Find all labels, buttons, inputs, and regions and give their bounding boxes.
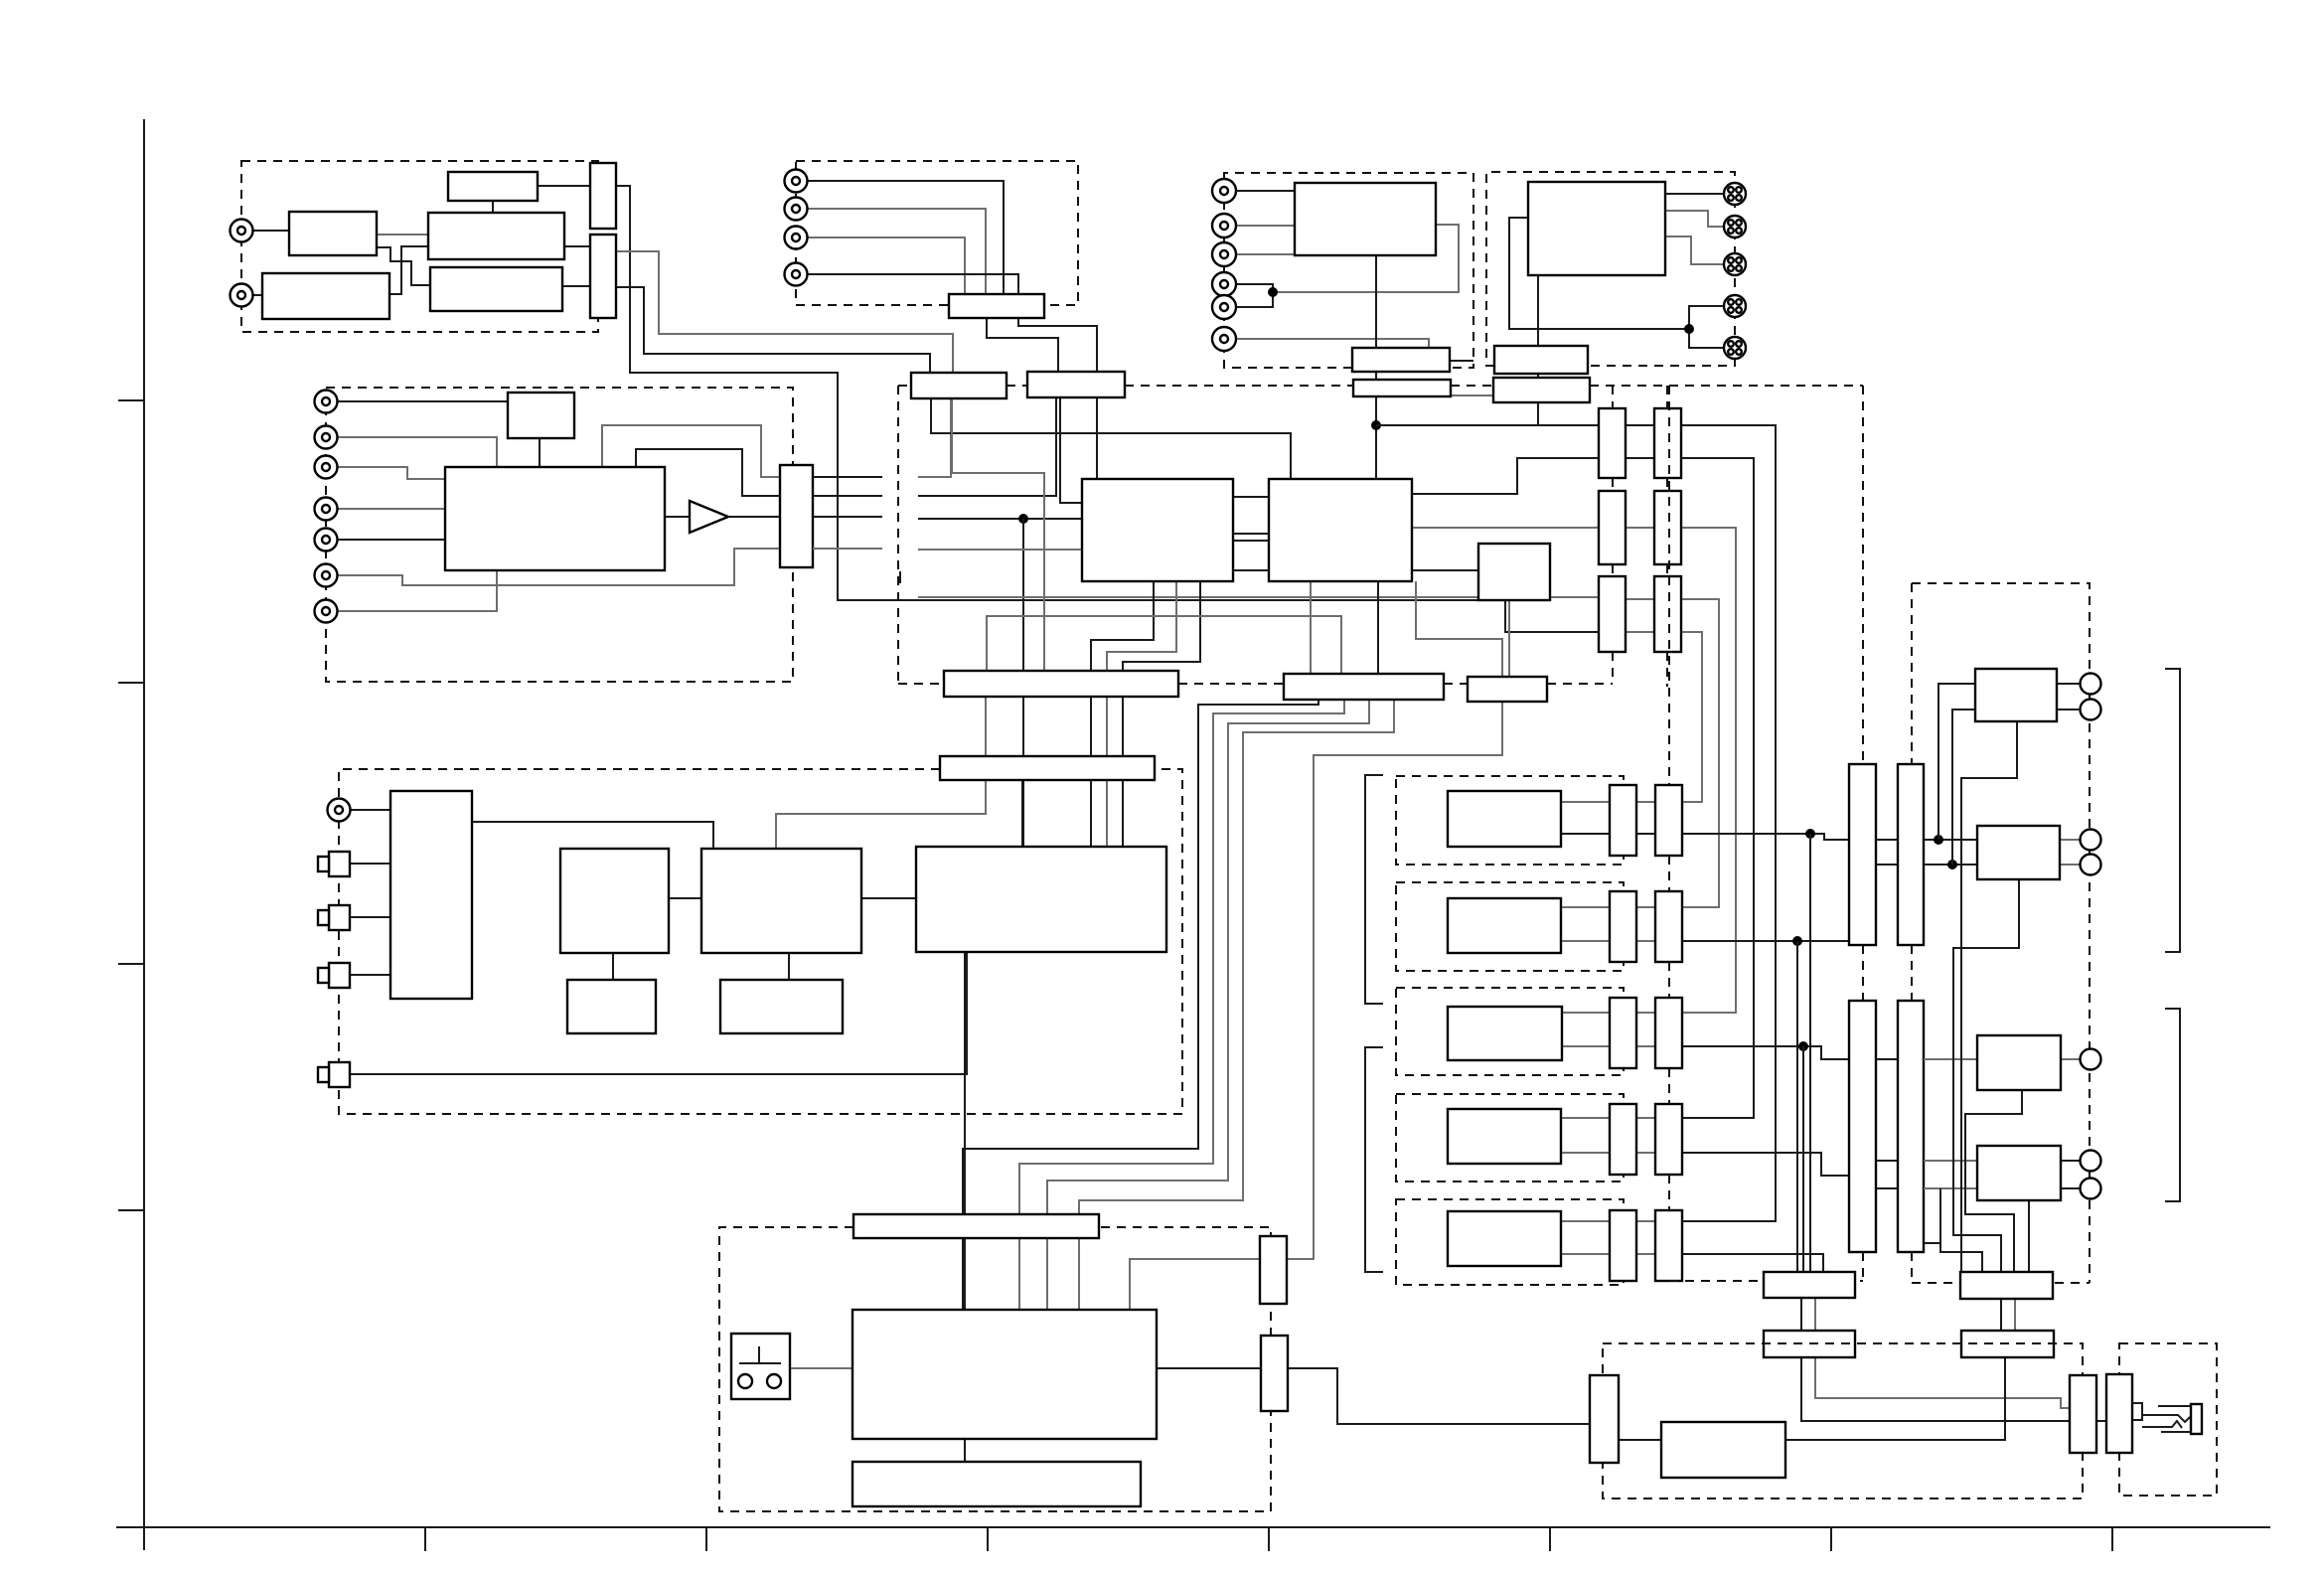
wire block TR2 to quad Q2 bbox=[1665, 211, 1724, 227]
jack R6c bbox=[1212, 327, 1236, 351]
jack R1c bbox=[1212, 179, 1236, 203]
dashed group box top-right 2 bbox=[1486, 172, 1735, 366]
wire bundle wD BL2 to block G bbox=[1079, 700, 1394, 1310]
dashed group box bottom-left bbox=[339, 769, 1182, 1114]
left bracket upper bbox=[1365, 775, 1383, 1004]
wire B4 down to bar TR1 a bbox=[2028, 1200, 2030, 1272]
wire box C to V_tl2 bbox=[564, 245, 590, 247]
dashed middle box left edge bbox=[897, 386, 899, 684]
wire square S1c to tall block bbox=[350, 863, 390, 865]
bar TM2 bbox=[1027, 372, 1125, 397]
wire square S4c long line to block F bottom bbox=[350, 952, 967, 1074]
terminal T4b bbox=[2081, 1179, 2101, 1199]
connector C1a bbox=[1599, 408, 1626, 478]
row5 connector Pb bbox=[1655, 1210, 1682, 1281]
row5 dashed box bbox=[1396, 1199, 1624, 1285]
wire block TR2 left loop to node C bbox=[1509, 218, 1689, 329]
wire B1 to terminal T1a bbox=[2057, 683, 2080, 685]
wire jack R4c down to node bbox=[1236, 284, 1273, 292]
tall block TB bbox=[390, 791, 472, 999]
dashed group box top-left bbox=[241, 161, 598, 332]
row1 wires bbox=[1561, 801, 1610, 803]
wire V2 to jack bbox=[2132, 1419, 2142, 1421]
wire V0 to block W bbox=[1619, 1439, 1661, 1441]
dashed group box bottom-middle bbox=[719, 1227, 1271, 1511]
wire bar TL down to block F bbox=[1021, 780, 1023, 847]
wire V_m2 long line to x1248 up bbox=[918, 397, 1056, 496]
square connector S2c bbox=[329, 905, 350, 930]
bar A2 bbox=[1353, 380, 1451, 396]
wire B2 to terminal T2b bbox=[2060, 864, 2080, 866]
bar A1 bbox=[1352, 348, 1450, 372]
bar GB bbox=[852, 1462, 1141, 1506]
bar TR2 bbox=[1961, 1331, 2054, 1357]
amp block B2 bbox=[1977, 826, 2060, 879]
wire B_mid link B_right bbox=[669, 897, 701, 899]
box E bbox=[430, 267, 562, 311]
quad Q5 bbox=[1724, 337, 1746, 359]
connector R1 bbox=[1898, 764, 1924, 945]
wire bar TL down to B_right loop bbox=[776, 780, 986, 849]
row3 block bbox=[1448, 1007, 1562, 1060]
ruler tick x1843 bbox=[1830, 1527, 1832, 1551]
wire jack L5c to block LB bbox=[338, 539, 445, 541]
wire M2 bottom gray to bar BL2 bbox=[1310, 581, 1312, 674]
dashed tall box bottom edge bbox=[1669, 1280, 1863, 1282]
wire C3b down to row1 top bbox=[1681, 632, 1702, 802]
wire node C to quad Q4 bbox=[1689, 306, 1724, 329]
wire R1 to node H to B2 bbox=[1924, 839, 1977, 841]
row3 connector Pa bbox=[1610, 998, 1636, 1068]
row2 dashed box bbox=[1396, 882, 1624, 971]
right bracket upper bbox=[2165, 669, 2180, 952]
wire node I up to B1 bbox=[1952, 709, 1975, 865]
small box SB bbox=[508, 393, 574, 438]
wire block M1 link3 M2 bbox=[1233, 540, 1269, 542]
dashed middle box right edge chain x1623 bbox=[1612, 386, 1614, 408]
box C bbox=[428, 213, 564, 259]
node B junction bbox=[1371, 420, 1381, 430]
axis tick y388 bbox=[118, 399, 144, 401]
dashed group box bottom-right bbox=[1603, 1343, 2083, 1498]
row1 dashed box bbox=[1396, 776, 1624, 865]
wire block M1 link2 M2 bbox=[1233, 533, 1269, 535]
wire node G2 down to bar BB1 bbox=[1802, 1046, 1804, 1272]
connector V2 bbox=[2106, 1374, 2132, 1453]
connector C3a bbox=[1599, 576, 1626, 652]
amp block B4 bbox=[1977, 1146, 2061, 1200]
wire block TR1 down to bar A1 bbox=[1375, 255, 1377, 348]
wire bundle wB BL2 to block G bbox=[1019, 700, 1344, 1310]
row5 out bottom to bar BB1 bbox=[1682, 1254, 1823, 1272]
bar BB2 bbox=[1764, 1331, 1855, 1357]
wire TR1-TR2 link a bbox=[2000, 1299, 2002, 1331]
connector V_tl2 bbox=[590, 235, 616, 318]
ruler tick x428 bbox=[424, 1527, 426, 1551]
terminal T3a bbox=[2081, 1049, 2101, 1070]
wire M2 right to C2a 531 bbox=[1412, 527, 1599, 529]
wire V_m2 up to bar TM1 bottom bbox=[918, 398, 951, 477]
wire B1 down to bar TR1 bbox=[1961, 721, 2017, 1272]
connector C3b bbox=[1654, 576, 1681, 652]
connector V_tl1 bbox=[590, 163, 616, 229]
jack T1 bbox=[231, 220, 253, 242]
jack L1c bbox=[315, 391, 338, 413]
wire M1 bottom v3 step to block F bbox=[1123, 581, 1200, 847]
node D junction bbox=[1018, 514, 1028, 524]
wire L2-R2 link 1168 bbox=[1876, 1160, 1898, 1162]
row4 out bottom to L2 bbox=[1682, 1153, 1849, 1176]
wire small box SB down to block LB bbox=[539, 438, 541, 467]
wire jack L6c under block to V_lm bbox=[338, 549, 780, 585]
wire bar TM down long to block M1 top bbox=[1018, 318, 1097, 479]
wire R2 tap via B4 input down to bar TR1 bbox=[1924, 1188, 1940, 1243]
wire jack L7c up to block LB bottom bbox=[338, 570, 497, 611]
wire box A to box C bbox=[377, 234, 428, 236]
row4 connector Pa bbox=[1610, 1104, 1636, 1175]
connector L2 bbox=[1849, 1001, 1876, 1252]
wire block F down to bar BM and block G bbox=[964, 952, 966, 1310]
bar BL2 bbox=[1284, 674, 1444, 700]
wire BL1 to bar TL chain x992 bbox=[985, 697, 987, 756]
quad Q4 bbox=[1724, 295, 1746, 317]
bar TM1 bbox=[911, 373, 1007, 398]
wire jack R2c to block TR1 bbox=[1236, 225, 1295, 227]
block B_mid bbox=[560, 849, 669, 953]
wire V_m3 long gray to C3a bbox=[918, 596, 1599, 598]
row3 out bottom with node G2 to L2 bbox=[1682, 1046, 1849, 1059]
dashed speaker box top and right bbox=[1912, 583, 2090, 1283]
wire amp triangle to V_lm bbox=[727, 516, 780, 518]
wire box A step to box E bbox=[377, 247, 430, 285]
amp block B3 bbox=[1977, 1035, 2061, 1090]
dashed speaker box left edge x1924 bbox=[1911, 583, 1913, 764]
headphone jack symbol bbox=[2133, 1403, 2202, 1434]
wire C1a-C1b link 428 bbox=[1626, 424, 1654, 426]
wire node D down to bar BL1 bbox=[1022, 519, 1024, 847]
quad Q1 bbox=[1724, 183, 1746, 205]
wire BB1-BB2 link black bbox=[1800, 1298, 1802, 1331]
wire BB2 down to V1 gray bbox=[1815, 1357, 2070, 1408]
wire jack R1c to block TR1 bbox=[1236, 190, 1295, 192]
dashed group box left-middle bbox=[326, 388, 793, 682]
jack R3c bbox=[1212, 242, 1236, 266]
wire L1-R1 link 845 bbox=[1876, 839, 1898, 841]
jack M4c bbox=[785, 263, 808, 286]
wire V_lm out3 to V_m2 bbox=[813, 516, 882, 518]
row5 wires bbox=[1561, 1220, 1610, 1222]
block G bbox=[852, 1310, 1157, 1439]
wire jack L2c to block LB top bbox=[338, 437, 497, 467]
wire jack M3c to bar TM bbox=[808, 237, 965, 294]
node H junction bbox=[1934, 835, 1943, 845]
wire C2b down to row3 top bbox=[1681, 528, 1736, 1013]
wire bundle wA BL2 to block G bbox=[963, 700, 1318, 1310]
wire node E down to bar BB1 bbox=[1809, 834, 1811, 1272]
row2 out bottom with node F to L1 bbox=[1682, 940, 1849, 942]
quad Q2 bbox=[1724, 216, 1746, 237]
terminal T1b bbox=[2081, 700, 2101, 720]
wire R1 to node I to B2 bbox=[1924, 864, 1977, 866]
wire square S3c to tall block bbox=[350, 974, 390, 976]
dashed group box top-middle bbox=[796, 161, 1078, 305]
wire jack M4c to bar TM bbox=[808, 274, 1018, 294]
terminal T2a bbox=[2081, 830, 2101, 851]
wire M1 bottom v2 step to block F bbox=[1107, 581, 1176, 847]
jack L2c bbox=[315, 426, 338, 449]
wire B2 down to bar TR1 bbox=[1953, 879, 2019, 1272]
bar TM bbox=[949, 294, 1044, 318]
wire block TR2 to quad Q1 bbox=[1665, 193, 1724, 195]
wire TR1-TR2 link b bbox=[2014, 1299, 2016, 1331]
right bracket lower bbox=[2165, 1009, 2180, 1201]
terminal T2b bbox=[2081, 855, 2101, 875]
dashed middle box bottom edge segments bbox=[898, 683, 944, 685]
bar TR1 bbox=[1960, 1272, 2053, 1299]
jack L7c bbox=[315, 600, 338, 623]
wire R2 to B4 in2 bbox=[1924, 1187, 1977, 1189]
wire BB1-BB2 link gray bbox=[1814, 1298, 1816, 1331]
wire B4 to terminal T4b bbox=[2061, 1187, 2080, 1189]
ruler tick x994 bbox=[987, 1527, 989, 1551]
ruler tick x711 bbox=[705, 1527, 707, 1551]
wire jack R3c to block TR1 bbox=[1236, 253, 1295, 255]
row3 dashed box bbox=[1396, 988, 1624, 1075]
amp triangle bbox=[690, 501, 728, 533]
wire C3a-C3b link 627 bbox=[1626, 598, 1654, 600]
bar BB1 bbox=[1764, 1272, 1855, 1298]
wire box D step to box C bbox=[389, 246, 428, 294]
wire V_lm out2 to V_m2 bbox=[813, 495, 882, 497]
wire jack R5c up to node bbox=[1236, 292, 1273, 307]
row4 block bbox=[1448, 1109, 1561, 1164]
row3 connector Pb bbox=[1655, 998, 1682, 1068]
wire jack T1 to box A bbox=[252, 230, 289, 232]
wire V_tl1 to long run down-right toward C3a bbox=[616, 186, 1599, 632]
row1 block bbox=[1448, 791, 1561, 847]
wire R2 to B3 bbox=[1924, 1058, 1977, 1060]
row1 out bottom with node E to L1 bbox=[1682, 834, 1849, 840]
row5 block bbox=[1448, 1211, 1561, 1266]
wire block G down to bar GB bbox=[964, 1439, 966, 1462]
row3 wires bbox=[1562, 1012, 1610, 1014]
wire B_right link F bbox=[861, 897, 916, 899]
wire bundle wC BL2 to block G bbox=[1047, 700, 1369, 1310]
wire BL1 to bar TL chain x1030 bbox=[1022, 697, 1024, 756]
jack L3c bbox=[315, 456, 338, 479]
connector R_b bbox=[1261, 1336, 1288, 1411]
wire V_tl2 lower output to bar TM1 bbox=[616, 287, 930, 375]
bottom ruler line bbox=[116, 1526, 2270, 1528]
box S2 bbox=[720, 980, 843, 1033]
jack BLc bbox=[328, 799, 351, 822]
wire V_m2 out4 to block M1 bbox=[918, 549, 1082, 551]
wire box B to V_tl1 bbox=[538, 185, 590, 187]
wire M2 bottom step to bar3 bbox=[1130, 581, 1502, 1310]
wire jack L3c step to block LB bbox=[338, 467, 445, 479]
block TR1 bbox=[1295, 183, 1436, 255]
node C junction bbox=[1684, 324, 1694, 334]
wire B_right down to S2 bbox=[788, 953, 790, 980]
axis tick y1244 bbox=[118, 1209, 144, 1211]
jack M1c bbox=[785, 170, 808, 193]
wire node C to quad Q5 bbox=[1689, 329, 1724, 348]
ruler tick x1277 bbox=[1268, 1527, 1270, 1551]
wire V_lm out1 to V_m2 bbox=[813, 476, 882, 478]
wire block LB top loop 2 to V_lm bbox=[636, 449, 780, 496]
wire box E to V_tl2 bbox=[562, 285, 590, 287]
bar TL bbox=[940, 756, 1155, 780]
box B bbox=[448, 172, 538, 201]
dashed headphone box bbox=[2119, 1343, 2217, 1496]
row4 dashed box bbox=[1396, 1094, 1624, 1182]
square connector S4c bbox=[329, 1062, 350, 1087]
box S1 bbox=[567, 980, 656, 1033]
ruler tick x1560 bbox=[1549, 1527, 1551, 1551]
wire C1b down to row5 top bbox=[1681, 425, 1776, 1221]
connector V1 bbox=[2070, 1375, 2096, 1453]
wire node H up to B1 bbox=[1938, 684, 1975, 840]
block TR2 bbox=[1528, 182, 1665, 275]
jack M2c bbox=[785, 198, 808, 221]
connector V_lm bbox=[780, 465, 813, 567]
node G2 junction bbox=[1798, 1041, 1808, 1051]
bar BL1 bbox=[944, 671, 1178, 697]
connector L1 bbox=[1849, 764, 1876, 945]
box SM bbox=[1478, 544, 1550, 600]
wire jack T2 to box D bbox=[252, 294, 262, 296]
row2 connector Pa bbox=[1610, 891, 1636, 962]
wire jack BLc to tall block bbox=[351, 809, 390, 811]
wire V_m2 chain V_m3 bbox=[899, 571, 901, 583]
wire B3 down to bar TR1 bbox=[1965, 1090, 2022, 1272]
box A bbox=[289, 212, 377, 255]
jack R4c bbox=[1212, 272, 1236, 296]
connector R_a bbox=[1260, 1236, 1287, 1304]
block F bbox=[916, 847, 1166, 952]
block LB bbox=[445, 467, 665, 570]
wire jack M2c to bar TM bbox=[808, 209, 986, 294]
wire V1 to V2 bbox=[2096, 1420, 2106, 1422]
wire bar TM down to bar TM2 bbox=[987, 318, 1058, 372]
connector V0 bbox=[1590, 1375, 1619, 1463]
wire square S2c to tall block bbox=[350, 916, 390, 918]
wire jack L4c to block LB bbox=[338, 508, 445, 510]
dashed tall box left edge x1680 bbox=[1668, 386, 1670, 785]
block W bbox=[1661, 1422, 1785, 1478]
wire plug box to block G bbox=[790, 1367, 852, 1369]
connector C1b bbox=[1654, 408, 1681, 478]
wire BL1 branch y620 to BL2 bbox=[987, 616, 1341, 674]
wire block TR2 to quad Q3 bbox=[1665, 236, 1724, 264]
wire C3b down to row2 top bbox=[1681, 599, 1719, 907]
bar3 bbox=[1468, 677, 1547, 702]
wire L2-R2 link 1066 bbox=[1876, 1058, 1898, 1060]
wire B_mid down to S1 bbox=[612, 953, 614, 980]
dashed speaker box bottom bbox=[1912, 1282, 2090, 1284]
block B_right bbox=[701, 849, 861, 953]
wire L428 node B to C1a bbox=[1376, 424, 1599, 426]
wire bar A1 to dashed edge bbox=[1451, 360, 1473, 362]
wire B3 to terminal T3a bbox=[2061, 1058, 2080, 1060]
wire block M1 link4 M2 to box SM bbox=[1233, 569, 1269, 571]
bar B2 bbox=[1493, 378, 1590, 402]
row1 connector Pa bbox=[1610, 785, 1636, 856]
jack R2c bbox=[1212, 214, 1236, 237]
quad Q3 bbox=[1724, 253, 1746, 275]
wire V_tl2 upper output to bar TM1 bbox=[616, 251, 953, 375]
square connector S3c bbox=[329, 963, 350, 988]
wire bar TM1 down path1 to bar BL1 bbox=[931, 398, 1291, 479]
block M2 bbox=[1269, 479, 1412, 581]
wire bar TM2 down to block M1 left bbox=[1060, 397, 1082, 503]
wire B1 to terminal T1b bbox=[2057, 709, 2080, 710]
dashed chain x1678 bbox=[1666, 386, 1668, 408]
row4 wires bbox=[1561, 1117, 1610, 1119]
wire L1-R1 link 870 bbox=[1876, 864, 1898, 866]
connector C2b bbox=[1654, 491, 1681, 564]
jack L4c bbox=[315, 498, 338, 521]
node I junction bbox=[1947, 860, 1957, 869]
left bracket lower bbox=[1365, 1047, 1383, 1272]
jack R5c bbox=[1212, 295, 1236, 319]
jack M3c bbox=[785, 227, 808, 249]
wire bar TM1 down path2 to bar BL1 bbox=[952, 398, 1044, 671]
connector R2 bbox=[1898, 1001, 1924, 1252]
wire BB2 down to V1 black bbox=[1801, 1357, 2070, 1421]
wire bar A2 to bar B2 link bbox=[1451, 394, 1493, 396]
wire TR2 down to block W riser bbox=[1785, 1357, 2005, 1440]
row2 connector Pb bbox=[1655, 891, 1682, 962]
ruler tick x2126 bbox=[2111, 1527, 2113, 1551]
node F junction bbox=[1792, 936, 1802, 946]
row4 connector Pb bbox=[1655, 1104, 1682, 1175]
jack T2 bbox=[231, 284, 253, 307]
wire L2-R2 link 1196 bbox=[1876, 1187, 1898, 1189]
dashed group box top-right 1 bbox=[1224, 173, 1473, 368]
wire node to block TR1 right side bbox=[1273, 225, 1459, 292]
wire box SM down to bar3 bbox=[1508, 600, 1510, 677]
wire B4 to terminal T4a bbox=[2061, 1160, 2080, 1162]
wire jack L1c to small box SB bbox=[338, 400, 508, 402]
wire C2a-C2b link 531 bbox=[1626, 527, 1654, 529]
row2 wires bbox=[1561, 906, 1610, 908]
jack L5c bbox=[315, 529, 338, 552]
wire bar A1 to bar A2 bbox=[1375, 372, 1377, 380]
wire B2 to terminal T2a bbox=[2060, 839, 2080, 841]
connector C2a bbox=[1599, 491, 1626, 564]
dashed tall box right edge x1875 bbox=[1862, 386, 1864, 764]
wire box B down to box C bbox=[492, 201, 494, 213]
node E junction bbox=[1805, 829, 1815, 839]
wire M2 right step to C1a 461 bbox=[1412, 458, 1599, 494]
wire jack R6c to bar A2 bbox=[1236, 339, 1429, 348]
wire block M1 link1 M2 bbox=[1233, 496, 1269, 498]
row1 connector Pb bbox=[1655, 785, 1682, 856]
wire M1 bottom v1 step to block F bbox=[1091, 581, 1154, 847]
row5 connector Pa bbox=[1610, 1210, 1636, 1281]
amp block B1 bbox=[1975, 669, 2057, 721]
wire block LB top loop 1 to V_lm bbox=[602, 425, 780, 477]
axis tick y990 bbox=[118, 963, 144, 965]
left margin axis line bbox=[143, 119, 145, 1550]
plug box with AC symbol bbox=[731, 1334, 790, 1399]
wire M2 to box SM bbox=[1412, 569, 1478, 571]
bar B1 bbox=[1494, 346, 1588, 374]
dashed middle box top edge segments bbox=[898, 385, 911, 387]
wire bar A2 down to node B and M2 bbox=[1375, 396, 1377, 479]
wire block TR2 down through bars B1 B2 bbox=[1537, 275, 1539, 425]
